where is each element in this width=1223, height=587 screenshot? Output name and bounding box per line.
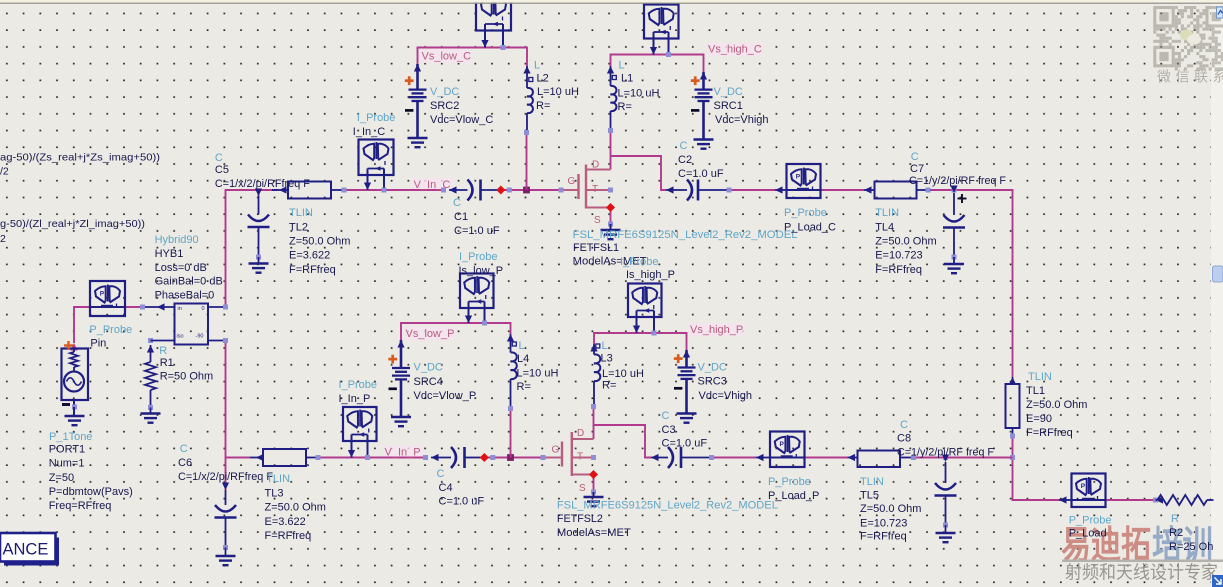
svg-text:C=1.0 uF: C=1.0 uF: [662, 437, 708, 449]
scrollbar thumb: [1213, 266, 1223, 282]
svg-text:Z=50: Z=50: [49, 472, 74, 484]
fet FETFSL1: [561, 165, 611, 209]
svg-text:C3: C3: [662, 424, 676, 436]
svg-text:SRC1: SRC1: [714, 100, 743, 112]
svg-text:C: C: [662, 410, 670, 422]
svg-text:C: C: [453, 197, 461, 209]
svg-text:R=50 Ohm: R=50 Ohm: [160, 370, 214, 382]
svg-text:Vs_low_P: Vs_low_P: [406, 328, 455, 340]
probe Is_high_C top: [644, 5, 679, 39]
svg-text:PhaseBal=0: PhaseBal=0: [155, 289, 215, 301]
probe P_Probe P_Load_P: [756, 454, 764, 461]
svg-text:C=1.0 uF: C=1.0 uF: [678, 168, 724, 180]
source V_DC SRC3: [683, 350, 690, 358]
svg-text:C6: C6: [178, 457, 192, 469]
wire P_Load_C to TL4: [821, 189, 865, 191]
svg-text:微信联系: 微信联系: [1157, 69, 1223, 85]
svg-text:E=10.723: E=10.723: [860, 517, 907, 529]
svg-text:E=10.723: E=10.723: [875, 250, 922, 262]
svg-text:TLIN: TLIN: [860, 476, 884, 488]
wire Vs_low_C rail: [418, 48, 528, 67]
ground SRC2: [408, 137, 428, 139]
wire TL5 to trunk: [914, 457, 1013, 459]
svg-text:V_DC: V_DC: [698, 361, 727, 373]
wire Pin probe to HYB1: [125, 306, 145, 308]
svg-text:SRC2: SRC2: [430, 100, 459, 112]
wire FET2 source to ground: [593, 475, 595, 493]
svg-text:R=: R=: [602, 379, 616, 391]
source P_1Tone PORT1: [70, 343, 77, 351]
wire HYB1 out2 riser to P channel: [208, 340, 226, 342]
wire HYB1 out1 riser to C channel: [208, 306, 226, 308]
wire TL4 to corner and down trunk: [931, 190, 1013, 377]
transmission line TL3: [256, 454, 264, 461]
svg-text:I_Probe: I_Probe: [339, 379, 378, 391]
svg-text:PORT1: PORT1: [49, 444, 85, 456]
ground SRC1: [694, 138, 714, 140]
capacitor C1 series: [441, 188, 446, 193]
svg-text:TLIN: TLIN: [875, 207, 899, 219]
svg-text:P_Load_C: P_Load_C: [784, 221, 836, 233]
wire Vs_high_C rail: [611, 55, 704, 73]
svg-text:FETFSL2: FETFSL2: [557, 513, 603, 525]
svg-text:C7: C7: [910, 163, 924, 175]
ground C7: [944, 263, 964, 265]
wire Vs_high_P rail: [594, 333, 687, 350]
svg-text:P_Probe: P_Probe: [784, 207, 827, 219]
svg-text:V_In_P: V_In_P: [385, 446, 421, 458]
svg-text:TL3: TL3: [265, 487, 284, 499]
svg-text:R=25 Oh: R=25 Oh: [1169, 541, 1213, 553]
svg-text:Z=50.0 Ohm: Z=50.0 Ohm: [289, 236, 350, 248]
svg-text:L4: L4: [517, 353, 529, 365]
ground PORT1: [65, 415, 85, 417]
wire L2 vertical: [526, 133, 528, 191]
svg-text:P=dbmtow(Pavs): P=dbmtow(Pavs): [49, 486, 133, 498]
svg-text:g-50)/(Zl_real+j*Zl_imag+50)): g-50)/(Zl_real+j*Zl_imag+50)): [0, 218, 145, 230]
svg-text:F=RFfreq: F=RFfreq: [860, 531, 907, 543]
wire P_Load_P to TL5: [805, 457, 848, 459]
wire drain node to C3: [594, 425, 652, 458]
probe Is_high_P: [628, 284, 662, 318]
svg-text:R: R: [159, 345, 167, 357]
probe I_Probe I_In_P: [343, 407, 377, 441]
svg-text:C: C: [180, 443, 188, 455]
svg-text:L=10 uH: L=10 uH: [602, 368, 644, 380]
ground R1: [141, 412, 161, 414]
transmission line TL2: [279, 186, 287, 193]
svg-text:C=1.0 uF: C=1.0 uF: [454, 225, 500, 237]
capacitor C8 shunt: [943, 455, 948, 460]
svg-text:G: G: [568, 176, 576, 187]
svg-text:L3: L3: [601, 352, 613, 364]
node V_In_C junction diamond: [496, 186, 505, 195]
svg-text:P: P: [796, 174, 801, 181]
svg-text:C: C: [900, 419, 908, 431]
junction C5 shunt: [258, 190, 260, 196]
wire TL2 to C1: [344, 189, 446, 191]
svg-text:P_1Tone: P_1Tone: [49, 431, 92, 443]
wire TL1 to load corner: [1013, 436, 1060, 500]
svg-text:C: C: [437, 468, 445, 480]
source V_DC SRC4: [397, 340, 404, 348]
svg-text:Freq=RFfreq: Freq=RFfreq: [49, 500, 112, 512]
probe Is_low_P: [460, 274, 494, 309]
svg-text:C=1/y/2/pi/RF freq F: C=1/y/2/pi/RF freq F: [909, 175, 1006, 187]
fet FETFSL2: [543, 432, 594, 476]
inductor L1: [607, 66, 614, 74]
svg-text:TL1: TL1: [1026, 385, 1045, 397]
ground C5: [249, 262, 269, 264]
svg-text:SRC4: SRC4: [414, 376, 443, 388]
svg-text:I_In_C: I_In_C: [353, 126, 385, 138]
svg-text:E=3.622: E=3.622: [289, 250, 330, 262]
svg-text:FSL_MRFE6S9125N_Level2_Rev2_MO: FSL_MRFE6S9125N_Level2_Rev2_MODEL: [557, 499, 778, 511]
capacitor C5 shunt: [255, 189, 262, 197]
svg-text:S: S: [579, 483, 586, 494]
node label Vs_high_P: [689, 323, 745, 337]
svg-text:Pin: Pin: [90, 338, 106, 350]
svg-text:P_Probe: P_Probe: [1069, 514, 1112, 526]
svg-text:in: in: [178, 306, 182, 312]
svg-text:I_Probe: I_Probe: [459, 251, 498, 263]
svg-text:L: L: [602, 340, 608, 352]
wire Vs_low_P rail: [401, 323, 511, 340]
node label Vs_high_C: [707, 43, 763, 57]
svg-text:2: 2: [0, 233, 6, 245]
wire C4 to FET2 gate: [480, 457, 543, 459]
svg-text:Hybrid90: Hybrid90: [155, 234, 199, 246]
node label V_In_P: [383, 446, 424, 457]
resistor R2: [1156, 496, 1164, 503]
svg-text:I_Probe: I_Probe: [357, 112, 396, 124]
inductor L4: [507, 334, 514, 342]
ground FET2 source: [584, 496, 604, 498]
svg-text:C: C: [680, 140, 688, 152]
svg-text:C=1.0 uF: C=1.0 uF: [439, 495, 485, 507]
svg-text:R=: R=: [517, 381, 531, 393]
svg-text:D: D: [577, 428, 584, 439]
svg-text:L1: L1: [621, 72, 633, 84]
svg-text:F=RFfreq: F=RFfreq: [265, 530, 312, 542]
probe Is_low_C top: [476, 0, 511, 31]
wire FET1 source to ground: [610, 208, 612, 225]
svg-text:T: T: [592, 184, 598, 195]
junction C7 shunt: [952, 188, 957, 193]
svg-text:ModelAs=MET: ModelAs=MET: [557, 527, 631, 539]
svg-text:TLIN: TLIN: [266, 473, 290, 485]
transmission line TL1 vertical: [1009, 377, 1016, 385]
svg-text:R2: R2: [1169, 527, 1183, 539]
svg-text:ag-50)/(Zs_real+j*Zs_imag+50)): ag-50)/(Zs_real+j*Zs_imag+50)): [0, 152, 160, 164]
svg-text:P_Probe: P_Probe: [768, 476, 811, 488]
ground FET1 source: [601, 229, 621, 231]
svg-text:L=10 uH: L=10 uH: [517, 367, 559, 379]
svg-text:Vdc=Vlow_C: Vdc=Vlow_C: [430, 114, 493, 126]
top border line: [0, 0, 1223, 3]
transmission line TL5: [848, 454, 856, 461]
svg-text:Is_low_P: Is_low_P: [459, 265, 504, 277]
svg-text:GainBal=0 dB: GainBal=0 dB: [155, 276, 223, 288]
wire C3 to P_Load_P probe: [712, 457, 757, 459]
svg-text:S: S: [594, 215, 601, 226]
svg-text:C=1/y/2/pi/RF freq F: C=1/y/2/pi/RF freq F: [897, 446, 994, 458]
svg-text:Vs_high_C: Vs_high_C: [708, 43, 762, 55]
svg-text:V_DC: V_DC: [414, 361, 443, 373]
svg-text:D: D: [592, 160, 599, 171]
wire drain FET2 to L3: [593, 407, 595, 440]
ground SRC4: [391, 416, 411, 418]
svg-text:射频和天线设计专家: 射频和天线设计专家: [1065, 563, 1218, 583]
svg-text:ANCE: ANCE: [3, 541, 49, 559]
wire C1 to FET1 gate: [497, 189, 561, 191]
svg-text:F=RFfreq: F=RFfreq: [289, 264, 336, 276]
node V_In_P junction diamond: [480, 453, 489, 462]
svg-text:TLIN: TLIN: [289, 207, 313, 219]
inductor L2: [523, 66, 530, 74]
svg-text:Vs_high_P: Vs_high_P: [690, 324, 743, 336]
probe I_Probe I_In_C: [359, 140, 394, 176]
junction L4 feed: [507, 454, 514, 461]
svg-text:P: P: [100, 291, 105, 298]
node label Vs_low_C: [420, 50, 472, 64]
svg-text:iso: iso: [177, 334, 184, 340]
title box ANCE: [4, 538, 59, 566]
wire C2 to P_Load_C probe: [729, 189, 775, 191]
svg-text:R1: R1: [160, 357, 174, 369]
svg-text:C2: C2: [678, 154, 692, 166]
capacitor C6 shunt: [225, 458, 227, 491]
svg-text:Vs_low_C: Vs_low_C: [422, 50, 472, 62]
probe P_Probe P_Load: [1059, 496, 1067, 503]
wire drain FET1 to L1: [610, 131, 612, 170]
svg-text:F=RFfreq: F=RFfreq: [875, 264, 922, 276]
svg-text:-90: -90: [196, 334, 204, 340]
resistor R1: [151, 340, 175, 342]
svg-text:E=90: E=90: [1026, 413, 1052, 425]
svg-text:Z=50.0 Ohm: Z=50.0 Ohm: [265, 501, 326, 513]
svg-text:P_Probe: P_Probe: [89, 324, 132, 336]
svg-text:Vdc=Vhigh: Vdc=Vhigh: [699, 390, 753, 402]
inductor L3: [590, 344, 597, 352]
wire drain node to C2: [611, 156, 667, 190]
svg-text:/2: /2: [0, 165, 9, 177]
wire TL3 to C4: [318, 457, 428, 459]
node label Vs_low_P: [404, 327, 456, 341]
svg-text:T: T: [577, 452, 583, 463]
svg-text:Vdc=Vhigh: Vdc=Vhigh: [715, 114, 769, 126]
icon top-right: [1217, 7, 1223, 18]
junction L2 feed: [523, 187, 530, 194]
wire input to P_Probe Pin: [74, 307, 90, 343]
probe P_Probe P_Load_C: [775, 186, 783, 193]
svg-text:Z=50.0 Ohm: Z=50.0 Ohm: [875, 236, 936, 248]
svg-text:Z=50.0 Ohm: Z=50.0 Ohm: [860, 503, 921, 515]
svg-text:R=: R=: [536, 100, 550, 112]
svg-text:Loss=0 dB: Loss=0 dB: [155, 262, 207, 274]
svg-text:C5: C5: [215, 164, 229, 176]
svg-text:SRC3: SRC3: [698, 375, 727, 387]
svg-text:L=10 uH: L=10 uH: [537, 86, 579, 98]
svg-text:C1: C1: [454, 211, 468, 223]
source V_DC SRC1: [700, 72, 707, 80]
node label V_In_C: [412, 178, 453, 189]
svg-text:Vdc=Vlow_P: Vdc=Vlow_P: [414, 390, 477, 402]
junction trunk with P channel: [1010, 455, 1015, 460]
svg-text:P_Load: P_Load: [1069, 528, 1107, 540]
svg-text:L2: L2: [537, 72, 549, 84]
transmission line TL4: [864, 186, 872, 193]
ground SRC3: [677, 412, 697, 414]
capacitor C2 series: [666, 186, 674, 193]
svg-text:Z=50.0 Ohm: Z=50.0 Ohm: [1026, 399, 1087, 411]
svg-text:I_Probe: I_Probe: [620, 256, 659, 268]
svg-text:C: C: [215, 152, 223, 164]
svg-text:Num=1: Num=1: [49, 458, 85, 470]
hybrid coupler HYB1: [175, 304, 209, 345]
svg-text:L: L: [534, 59, 540, 71]
svg-text:TL2: TL2: [289, 221, 308, 233]
svg-text:0: 0: [202, 306, 205, 312]
svg-text:P: P: [779, 441, 784, 448]
svg-text:L: L: [619, 59, 625, 71]
svg-text:TL5: TL5: [860, 489, 879, 501]
capacitor C7 shunt: [950, 186, 957, 194]
capacitor C3 series: [651, 454, 659, 461]
svg-text:P: P: [1081, 483, 1086, 490]
svg-text:C=1/x/2/pi/RFfreq F: C=1/x/2/pi/RFfreq F: [215, 178, 310, 190]
capacitor C4 series: [423, 455, 428, 460]
wire P_Load probe to R2: [1106, 499, 1156, 501]
svg-text:V_DC: V_DC: [714, 86, 743, 98]
wire L4 vertical: [510, 409, 512, 458]
svg-text:TL4: TL4: [875, 221, 894, 233]
svg-text:E=3.622: E=3.622: [265, 516, 306, 528]
svg-text:P_Load_P: P_Load_P: [768, 490, 819, 502]
watermark divider rule: [1062, 560, 1223, 563]
svg-text:G: G: [552, 445, 560, 456]
svg-text:FETFSL1: FETFSL1: [573, 242, 619, 254]
svg-text:C: C: [911, 151, 919, 163]
svg-text:TLIN: TLIN: [1028, 371, 1052, 383]
svg-text:I_In_P: I_In_P: [339, 393, 371, 405]
svg-text:R: R: [1171, 513, 1179, 525]
svg-text:C4: C4: [439, 482, 453, 494]
svg-text:Is_high_P: Is_high_P: [626, 269, 675, 281]
svg-text:C=1/x/2/pi/RFfreq F: C=1/x/2/pi/RFfreq F: [178, 471, 273, 483]
svg-text:C8: C8: [897, 432, 911, 444]
icon bottom-right arrow: [1212, 575, 1223, 587]
svg-text:R=: R=: [618, 101, 632, 113]
svg-text:V_DC: V_DC: [430, 86, 459, 98]
svg-text:L: L: [519, 340, 525, 352]
scrollbar track: [1211, 3, 1223, 587]
svg-text:F=RFfreq: F=RFfreq: [1026, 427, 1073, 439]
svg-text:FSL_MRFE6S9125N_Level2_Rev2_MO: FSL_MRFE6S9125N_Level2_Rev2_MODEL: [573, 229, 798, 241]
watermark QR code: [1153, 6, 1223, 70]
ground C6: [216, 555, 236, 557]
svg-text:HYB1: HYB1: [155, 248, 184, 260]
probe P_Probe Pin: [90, 281, 125, 316]
source V_DC SRC2: [414, 64, 421, 72]
svg-text:L=10 uH: L=10 uH: [618, 87, 660, 99]
ground C8: [936, 532, 956, 534]
